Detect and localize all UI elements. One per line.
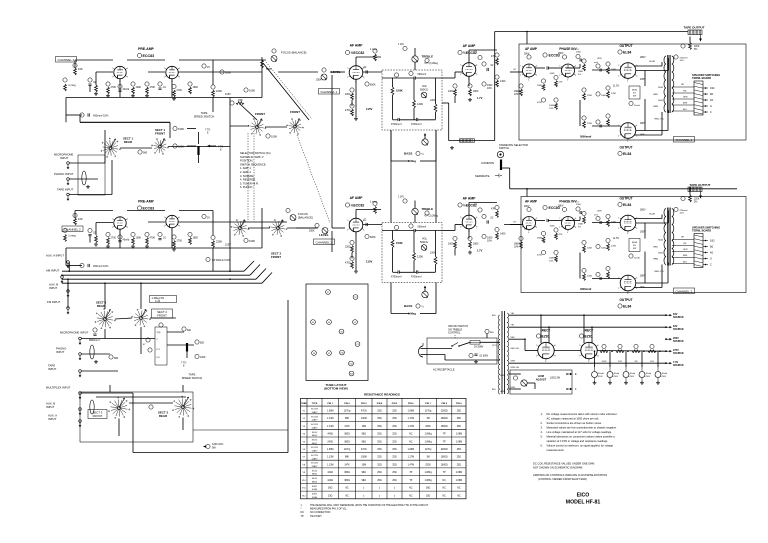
svg-text:1: 1 [164, 226, 165, 228]
svg-text:FRONT: FRONT [155, 132, 165, 136]
wire sect1 to selector [168, 146, 230, 148]
svg-text:4: 4 [545, 361, 546, 363]
svg-text:25Ω: 25Ω [392, 464, 397, 466]
svg-text:1.08M: 1.08M [408, 410, 414, 412]
svg-text:CHANNEL 1: CHANNEL 1 [58, 58, 75, 62]
wire V3A-V3B coupling ch1 [536, 67, 546, 69]
svg-text:V5: V5 [354, 322, 356, 324]
svg-text:MODEL HF-81: MODEL HF-81 [566, 500, 601, 506]
svg-text:10%: 10% [680, 60, 684, 62]
svg-text:TAPE OUTPUT: TAPE OUTPUT [684, 26, 705, 30]
power transformer secondary winding [507, 313, 509, 394]
wire preamp2 bus [66, 247, 262, 249]
svg-text:INPUT: INPUT [60, 156, 69, 160]
resistor ch2 cath [106, 232, 110, 236]
ref mid [149, 405, 153, 409]
svg-text:3: 3 [363, 229, 364, 231]
svg-text:1.17M: 1.17M [408, 418, 414, 420]
svg-text:147K: 147K [344, 426, 350, 428]
svg-text:1: 1 [579, 356, 580, 358]
resistor R9 220K [211, 85, 215, 89]
resistor 1400 ch2 [495, 227, 499, 231]
filter resistor R50 in B+ chain [600, 350, 608, 353]
svg-text:4: 4 [528, 232, 529, 234]
svg-text:REAR: REAR [124, 140, 133, 144]
svg-text:FRONT: FRONT [271, 255, 281, 259]
svg-text:THE READING WILL VARY DEPENDIN: THE READING WILL VARY DEPENDING UPON THE… [310, 504, 429, 507]
svg-text:NC: NC [345, 495, 349, 497]
svg-text:115V: 115V [225, 243, 231, 247]
svg-text:12AX7: 12AX7 [311, 419, 318, 422]
jack am [61, 276, 64, 279]
switch contact separate [495, 175, 499, 177]
svg-text:5%: 5% [694, 202, 697, 204]
svg-text:150K: 150K [396, 241, 403, 245]
capacitor line filter [469, 353, 473, 357]
resistor cathode af1 [350, 88, 354, 92]
svg-text:2000: 2000 [601, 95, 607, 97]
svg-text:C-32: C-32 [155, 301, 161, 303]
svg-text:10%: 10% [514, 94, 519, 96]
rotary switch S1 sect1 rear [109, 147, 112, 150]
svg-text:100K: 100K [249, 89, 255, 93]
svg-text:6: 6 [127, 68, 128, 70]
svg-text:EZ81: EZ81 [585, 335, 593, 339]
svg-text:ORN: ORN [597, 211, 602, 213]
tube V5 EL84 lower ch1 [620, 123, 636, 139]
capacitor 500mmf [409, 71, 413, 75]
channel 2 power amplifier box [521, 197, 746, 293]
label SECT 3 FRONT [88, 410, 107, 419]
svg-text:V1: V1 [327, 292, 329, 294]
jack tape input 1 [67, 193, 70, 196]
svg-text:BRN: BRN [683, 255, 688, 257]
tube V4 EL84 upper ch2 [620, 215, 636, 231]
resistor ch2 plate [74, 218, 77, 225]
svg-text:25Ω: 25Ω [377, 434, 382, 436]
jack aux a lower [79, 420, 82, 423]
svg-text:OUTPUT: OUTPUT [619, 146, 632, 150]
svg-text:FRONT: FRONT [290, 110, 300, 114]
svg-text:TAPE OUTPUT: TAPE OUTPUT [690, 183, 711, 187]
svg-text:6: 6 [536, 66, 537, 68]
svg-text:100K: 100K [136, 237, 142, 240]
svg-text:7: 7 [460, 217, 461, 219]
svg-text:PIN 2: PIN 2 [344, 403, 350, 405]
svg-text:6: 6 [575, 218, 576, 220]
svg-text:NC: NC [409, 441, 413, 443]
tube V3B phase inverter ch1 [562, 64, 575, 77]
resistor cath af2 [350, 240, 354, 244]
jack phono input 1 [67, 178, 70, 181]
svg-text:1400: 1400 [500, 233, 506, 236]
svg-text:470Ω: 470Ω [361, 449, 367, 451]
svg-text:1.08Kg: 1.08Kg [424, 434, 432, 436]
svg-text:98Ω: 98Ω [362, 441, 367, 443]
label CHANNEL 2 left [62, 226, 83, 232]
secondary wires ch1 [672, 86, 694, 88]
svg-text:LEVEL: LEVEL [319, 233, 329, 237]
svg-text:180K: 180K [537, 85, 543, 87]
svg-text:6: 6 [636, 278, 637, 280]
svg-text:100M: 100M [361, 418, 367, 420]
svg-text:RED: RED [653, 247, 658, 249]
svg-text:7V: 7V [524, 229, 527, 231]
capacitor C2 bypass [118, 84, 122, 88]
resistor plate R1 [74, 68, 77, 75]
svg-text:1 meg: 1 meg [68, 234, 76, 238]
svg-text:36Ω: 36Ω [426, 488, 431, 490]
wire af2 col [355, 232, 357, 270]
wire spine x213 ch2 [212, 248, 214, 271]
svg-text:470Ω: 470Ω [361, 410, 367, 412]
svg-text:3: 3 [636, 75, 637, 77]
svg-text:25Ω: 25Ω [392, 457, 397, 459]
svg-text:5%: 5% [633, 93, 636, 95]
svg-text:150K: 150K [178, 127, 184, 131]
svg-text:4: 4 [627, 233, 628, 235]
svg-text:1 meg: 1 meg [370, 48, 377, 51]
svg-text:600: 600 [187, 329, 192, 332]
svg-text:4700mmf: 4700mmf [411, 123, 422, 126]
wire af amp input ch1 [510, 71, 523, 73]
capacitor 6800mmf [93, 328, 97, 332]
svg-text:5600: 5600 [658, 100, 664, 102]
svg-text:EL84: EL84 [623, 203, 631, 207]
svg-text:33Ω: 33Ω [328, 495, 333, 497]
power supply wires [509, 314, 666, 316]
resistor ch2 r8 [188, 232, 192, 236]
svg-text:AF AMP: AF AMP [525, 200, 538, 204]
junction dots on bus [229, 270, 231, 272]
tube layout position V1 [326, 290, 331, 295]
svg-text:RED-YEL: RED-YEL [655, 271, 665, 273]
svg-text:CHANNEL 2: CHANNEL 2 [316, 240, 333, 244]
bass arrow ch2 [424, 286, 426, 289]
svg-text:115V: 115V [225, 92, 231, 96]
svg-text:1: 1 [536, 356, 537, 358]
svg-text:440Ω: 440Ω [327, 480, 333, 482]
svg-text:150K: 150K [178, 145, 184, 149]
resistor R10 100K 10% (to V1B grid) [244, 88, 248, 92]
svg-text:BLK: BLK [492, 389, 496, 391]
svg-text:1000: 1000 [448, 90, 454, 93]
svg-text:SEPARATE: SEPARATE [475, 174, 490, 178]
svg-text:AF AMP: AF AMP [350, 196, 364, 200]
svg-text:GY: GY [513, 69, 517, 71]
wire x80 drop [79, 115, 81, 122]
svg-text:V4: V4 [328, 322, 330, 324]
svg-text:3M: 3M [426, 457, 429, 459]
svg-text:100K: 100K [549, 258, 555, 260]
jack tape 2 [79, 370, 82, 373]
wire caps to B+ chain [594, 351, 596, 367]
svg-text:2V: 2V [207, 66, 210, 69]
svg-text:TUBE: TUBE [301, 403, 307, 405]
tube V6B preamp ch2 [166, 215, 178, 227]
svg-text:700Ω: 700Ω [658, 240, 664, 242]
resistor plate af2 [373, 201, 377, 205]
svg-text:INPUT: INPUT [48, 367, 57, 371]
resistor 1400 [495, 75, 499, 79]
resistor plate V2B [478, 55, 482, 59]
wire EL84 plates to transformer ch2 [636, 222, 668, 224]
svg-text:2200Ω: 2200Ω [441, 410, 448, 412]
svg-text:2A 25MV: 2A 25MV [474, 346, 484, 349]
bass box [390, 130, 392, 161]
svg-text:6: 6 [179, 68, 180, 70]
tube V1B [166, 66, 178, 78]
svg-text:½ECC82: ½ECC82 [351, 51, 365, 55]
svg-text:TREBLE: TREBLE [422, 207, 434, 211]
bass arrow [424, 133, 426, 136]
resistance readings table grid [301, 398, 467, 498]
svg-text:G: G [710, 258, 712, 261]
svg-text:4Ω: 4Ω [710, 252, 713, 255]
svg-text:3: 3 [598, 356, 599, 358]
svg-text:EICO: EICO [577, 493, 590, 499]
wire spine x230 [229, 98, 231, 127]
svg-text:SPEED SWITCH: SPEED SWITCH [182, 376, 203, 380]
resistor R4 cathode [106, 82, 110, 86]
svg-text:560: 560 [143, 152, 148, 155]
capacitor 4700mmf a [397, 118, 399, 121]
svg-text:PHASE INV: PHASE INV [559, 47, 577, 51]
svg-text:SPEED SWITCH: SPEED SWITCH [194, 114, 215, 118]
wire box feed [109, 385, 111, 392]
B+ source terminal 84V at y315 [665, 314, 667, 316]
svg-text:4700mmf: 4700mmf [391, 276, 402, 279]
node plate V1B [202, 64, 206, 68]
svg-text:25Ω: 25Ω [377, 410, 382, 412]
svg-text:820K: 820K [370, 236, 376, 239]
wire input bus line 2 (AM) [62, 274, 250, 276]
svg-text:6: 6 [575, 66, 576, 68]
svg-text:3: 3 [636, 288, 637, 290]
svg-text:COMMON: COMMON [481, 161, 494, 165]
svg-text:1.13M: 1.13M [327, 464, 333, 466]
potentiometer level ch1 [322, 68, 326, 72]
wire V2B col [468, 76, 470, 86]
svg-text:7: 7 [559, 66, 560, 68]
svg-text:6.: 6. [541, 443, 543, 447]
svg-text:FRONT: FRONT [157, 313, 167, 317]
svg-text:180K: 180K [578, 71, 584, 73]
wire phono line [69, 178, 98, 180]
capacitor ch2 c3 [158, 232, 162, 236]
svg-text:180K: 180K [578, 224, 584, 226]
svg-text:1.08M: 1.08M [456, 472, 462, 474]
svg-text:10M: 10M [362, 426, 367, 428]
svg-text:GRN: GRN [683, 97, 688, 99]
resistor ch2 r5 [131, 232, 135, 236]
tube layout position V3 [311, 320, 316, 325]
svg-text:BLK: BLK [492, 315, 496, 317]
resistor 150K a [173, 126, 177, 130]
svg-text:SOURCE: SOURCE [673, 364, 684, 367]
svg-text:7V: 7V [524, 77, 527, 79]
svg-text:2200Ω: 2200Ω [441, 449, 448, 451]
svg-text:1 1PL: 1 1PL [398, 197, 405, 199]
svg-text:1.7V: 1.7V [477, 96, 483, 100]
svg-text:C: C [710, 111, 712, 114]
fuse F1 [470, 341, 480, 345]
tone stack box ch2 [382, 223, 442, 283]
AC wires [426, 348, 452, 350]
svg-text:1.: 1. [541, 412, 543, 416]
cathode resistor box EL84 ch2 [629, 239, 640, 252]
svg-text:820: 820 [200, 342, 205, 345]
wire to power amp ch2 [504, 224, 521, 226]
svg-text:BRN: BRN [683, 103, 688, 105]
svg-text:1.47M: 1.47M [408, 426, 414, 428]
svg-text:6: 6 [476, 65, 477, 67]
wire af2 out [363, 224, 382, 226]
svg-text:BLUE: BLUE [649, 61, 655, 63]
wire bus y122 to selector [80, 121, 170, 123]
electrolytic cap at x610 [607, 372, 613, 378]
resistor plate af1 [373, 49, 377, 53]
tube V7A af amp ch2 [349, 218, 363, 232]
svg-text:450mmf 10%: 450mmf 10% [93, 264, 109, 268]
svg-text:SOURCE: SOURCE [673, 352, 684, 355]
svg-text:1800Ω: 1800Ω [441, 426, 448, 428]
wire diagonal focus to switch [263, 63, 309, 120]
svg-text:3: 3 [636, 228, 637, 230]
tube V2B af amp right [462, 63, 476, 77]
svg-text:380Ω: 380Ω [344, 480, 350, 482]
svg-text:TERML BOARD: TERML BOARD [692, 229, 711, 233]
svg-text:290V: 290V [524, 54, 530, 56]
svg-text:1: 1 [112, 77, 113, 79]
wire V2B plate [468, 50, 470, 63]
svg-text:450V: 450V [630, 376, 635, 378]
jack microphone input 1 [67, 162, 70, 165]
svg-text:ARROWS ON CONTROLS INDICATE CL: ARROWS ON CONTROLS INDICATE CLOCKWISE RO… [533, 473, 607, 477]
svg-text:4: 4 [627, 81, 628, 83]
tape output connector ch2 [688, 187, 702, 192]
wire selector links [230, 125, 249, 127]
svg-text:88K: 88K [345, 457, 350, 459]
svg-text:3: 3 [179, 226, 180, 228]
svg-text:470K: 470K [150, 86, 156, 89]
svg-text:PHONO INPUT: PHONO INPUT [54, 172, 74, 176]
svg-text:180K: 180K [537, 238, 543, 240]
svg-text:25Ω: 25Ω [377, 464, 382, 466]
svg-text:CHANNEL 1: CHANNEL 1 [676, 138, 693, 142]
rotary switch sect2 front lower [239, 227, 242, 230]
potentiometer bass ch2 [422, 291, 428, 297]
svg-text:TP: TP [443, 472, 446, 474]
svg-text:(BALANCE): (BALANCE) [298, 216, 313, 220]
potentiometer treble ch1 [412, 56, 418, 62]
svg-text:OUTPUT: OUTPUT [619, 197, 632, 201]
svg-text:1.17M: 1.17M [408, 457, 414, 459]
svg-text:MULTIPLEX INPUT: MULTIPLEX INPUT [46, 386, 71, 390]
svg-text:CHANNEL 2: CHANNEL 2 [676, 289, 693, 293]
wire af out [363, 71, 382, 73]
svg-text:(CONTROL VIEWED FROM SHAFT END: (CONTROL VIEWED FROM SHAFT END) [538, 477, 587, 481]
svg-text:AM INPUT: AM INPUT [46, 269, 60, 273]
tone stack box ch1 [382, 70, 442, 130]
svg-text:NC: NC [443, 495, 447, 497]
svg-text:380Ω: 380Ω [344, 434, 350, 436]
tube V5 EL84 lower ch2 [620, 275, 636, 291]
svg-text:2000: 2000 [576, 204, 582, 206]
svg-text:16Ω: 16Ω [710, 87, 715, 90]
AC input box [427, 338, 497, 364]
svg-text:1 meg: 1 meg [68, 83, 76, 87]
wire feedback h ch1 [449, 140, 495, 142]
svg-text:117Kg: 117Kg [425, 449, 432, 451]
label CHANNEL box ch1 [674, 137, 695, 143]
svg-text:40mfd: 40mfd [123, 239, 130, 242]
svg-text:2700: 2700 [177, 89, 183, 92]
rotary switch S1 sect1 front [159, 145, 162, 148]
wire preamp2 top rail [75, 210, 113, 212]
svg-text:25Ω: 25Ω [377, 472, 382, 474]
tube V2A af amp ch1 [349, 66, 363, 80]
resistor V2B grid2 [468, 84, 472, 88]
svg-text:V3: V3 [312, 322, 314, 324]
svg-text:2200: 2200 [345, 246, 351, 249]
svg-text:98Ω: 98Ω [362, 434, 367, 436]
svg-text:1.08M: 1.08M [408, 449, 414, 451]
tube layout position V11 [349, 361, 354, 366]
svg-text:6: 6 [476, 217, 477, 219]
svg-text:BLK: BLK [683, 262, 687, 264]
output transformer T2 [664, 209, 666, 265]
svg-text:1: 1 [112, 227, 113, 229]
svg-text:117Kg: 117Kg [425, 410, 432, 412]
svg-text:SOURCE: SOURCE [673, 328, 684, 331]
svg-text:1: 1 [164, 77, 165, 79]
junction dots chain [611, 350, 613, 352]
svg-text:5%: 5% [578, 227, 581, 229]
resistor 120K ch2 [413, 253, 416, 261]
wire bus riser ch2 [509, 168, 511, 189]
resistor 1200 ref [206, 444, 210, 448]
svg-text:100K: 100K [549, 105, 555, 107]
svg-text:3M: 3M [426, 418, 429, 420]
svg-text:6BQ5: 6BQ5 [312, 481, 318, 483]
wire bottom link2 [193, 429, 288, 431]
wire preamp2 drops [119, 229, 121, 248]
svg-text:G: G [710, 105, 712, 108]
capacitor out ch2 [482, 214, 486, 218]
svg-text:BLK: BLK [683, 109, 687, 111]
tube V11 rectifier EZ81 [538, 342, 554, 358]
B+ source terminal 84V at y327 [665, 326, 667, 328]
grid resistors EL84 ch2 [582, 211, 586, 215]
svg-text:ECC83: ECC83 [311, 424, 318, 426]
resistor ch2 100K [244, 238, 248, 242]
feedback network ch1 [460, 139, 475, 142]
svg-text:ECC83: ECC83 [143, 54, 155, 58]
wire EL84 grids ch1 [566, 67, 580, 69]
svg-text:7: 7 [618, 65, 619, 67]
svg-text:1.3Meg 5%: 1.3Meg 5% [152, 297, 165, 300]
svg-text:NC: NC [457, 495, 461, 497]
svg-text:4: 4 [588, 361, 589, 363]
svg-text:PIN 4: PIN 4 [377, 402, 383, 405]
svg-text:98Ω: 98Ω [362, 480, 367, 482]
svg-text:25Ω: 25Ω [392, 426, 397, 428]
svg-text:7: 7 [164, 217, 165, 219]
svg-text:380Ω: 380Ω [344, 441, 350, 443]
svg-text:220K: 220K [216, 89, 222, 93]
svg-text:PIN 1: PIN 1 [327, 403, 333, 405]
